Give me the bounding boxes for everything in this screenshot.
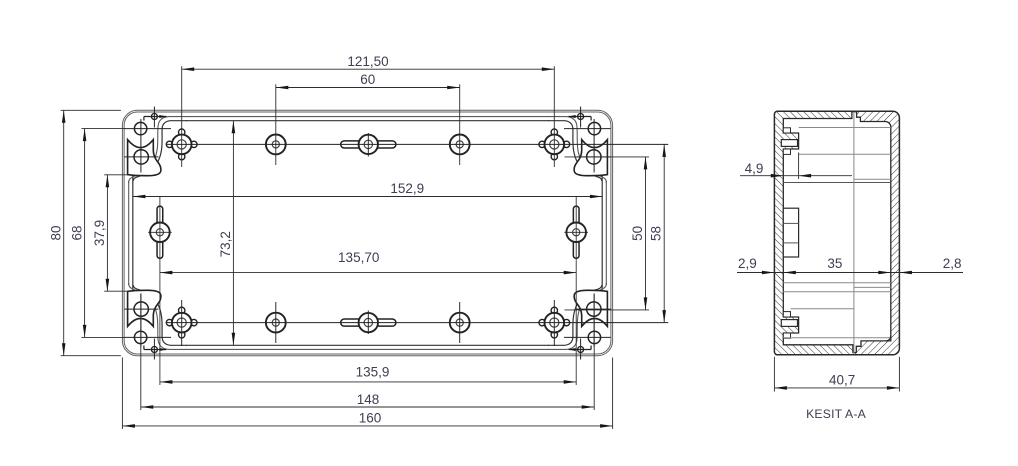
svg-text:73,2: 73,2 [218, 231, 233, 257]
svg-text:58: 58 [649, 226, 664, 241]
svg-text:40,7: 40,7 [829, 373, 855, 388]
svg-text:60: 60 [360, 72, 375, 87]
svg-text:135,9: 135,9 [356, 364, 390, 379]
svg-text:2,8: 2,8 [943, 256, 962, 271]
svg-text:152,9: 152,9 [390, 181, 424, 196]
svg-text:80: 80 [48, 225, 63, 240]
svg-text:37,9: 37,9 [92, 220, 107, 246]
svg-text:35: 35 [827, 256, 842, 271]
svg-text:160: 160 [359, 411, 382, 426]
svg-text:4,9: 4,9 [745, 161, 764, 176]
svg-text:148: 148 [357, 392, 380, 407]
svg-text:121,50: 121,50 [347, 54, 388, 69]
svg-text:68: 68 [69, 225, 84, 240]
svg-text:50: 50 [630, 226, 645, 241]
svg-text:135,70: 135,70 [338, 250, 379, 265]
svg-text:KESIT A-A: KESIT A-A [806, 407, 866, 421]
svg-text:2,9: 2,9 [738, 256, 757, 271]
